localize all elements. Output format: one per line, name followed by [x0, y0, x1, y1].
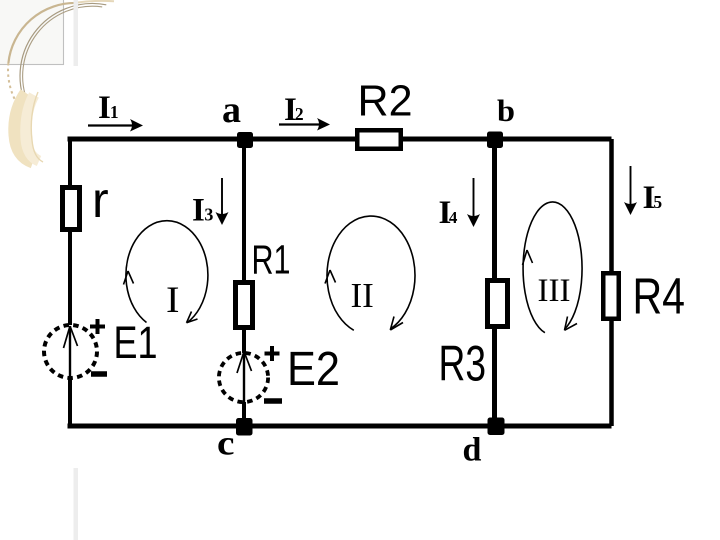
svg-text:R1: R1 [252, 237, 291, 283]
decor faint vertical line [74, 0, 79, 540]
resistor R2 [357, 130, 401, 149]
svg-text:R2: R2 [358, 78, 413, 126]
svg-text:d: d [463, 432, 482, 469]
loop III arc [523, 202, 582, 333]
svg-text:b: b [497, 93, 515, 128]
node d [488, 418, 505, 436]
decor pale ring edge [31, 92, 43, 162]
arrow I5 [630, 166, 632, 207]
arrow I4 [473, 178, 475, 219]
node a [237, 132, 253, 148]
wire branch b-d [492, 139, 497, 426]
arrow I3 [221, 178, 223, 217]
resistor R1 [236, 283, 253, 328]
resistor r [63, 188, 80, 230]
source E1 plus [90, 319, 105, 334]
svg-text:III: III [538, 273, 571, 309]
arrow I1 [88, 124, 134, 126]
svg-text:r: r [92, 172, 109, 228]
loop I arc [126, 221, 208, 323]
loop I head left [124, 271, 134, 285]
decor tan streak top [78, 1, 114, 3]
node b [487, 132, 503, 149]
svg-text:R4: R4 [633, 268, 686, 325]
wire top (a-b rail) [68, 137, 612, 142]
svg-text:E2: E2 [287, 343, 340, 396]
svg-text:I: I [166, 280, 180, 321]
svg-text:E1: E1 [114, 317, 158, 368]
loop III head bottom-right [565, 317, 578, 331]
wire right branch [609, 139, 614, 426]
source E1 minus [91, 371, 107, 377]
node c [236, 418, 253, 436]
source E2 arrow shaft [243, 352, 245, 405]
decor tan arc dashed [8, 63, 15, 100]
svg-text:R3: R3 [439, 336, 487, 392]
source E1 arrowhead [64, 326, 78, 348]
decor pale crescent band [15, 93, 33, 162]
svg-text:a: a [222, 89, 241, 131]
source E2 plus [265, 346, 280, 361]
wire bottom (c-d rail) [68, 424, 612, 429]
wire middle branch a-c [242, 139, 246, 426]
resistor R4 [603, 273, 619, 319]
svg-text:II: II [351, 276, 374, 315]
loop III head left [523, 250, 533, 265]
arrow I2 [279, 123, 321, 125]
decor gray arc inner [23, 6, 103, 103]
decor pale crescent band inner [26, 95, 39, 161]
white picture backing [50, 66, 716, 468]
wire left branch [68, 137, 72, 427]
decor gray arc outer [20, 3, 106, 110]
resistor R3 [488, 281, 508, 327]
loop II arc [327, 216, 415, 330]
loop II head bottom-right [390, 317, 403, 331]
source E1 circle [44, 325, 97, 378]
decor corner square [0, 0, 64, 65]
decor tan arc solid [8, 3, 77, 63]
loop II head left [325, 270, 336, 284]
source E2 minus [264, 398, 282, 404]
loop I head bottom-right [187, 312, 198, 323]
source E1 arrow shaft [69, 326, 71, 380]
svg-text:c: c [217, 424, 235, 463]
source E2 arrowhead [237, 352, 252, 374]
source E2 circle [219, 353, 268, 402]
